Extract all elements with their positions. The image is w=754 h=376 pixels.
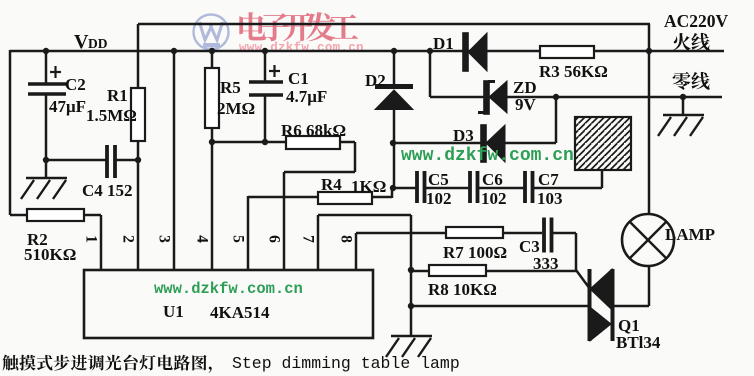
svg-text:2MΩ: 2MΩ — [217, 99, 255, 118]
junction — [391, 48, 397, 54]
wire — [575, 233, 578, 271]
wire — [284, 171, 355, 174]
resistor R3 — [540, 46, 594, 58]
resistor R7 — [446, 227, 503, 238]
capacitor C4 — [107, 145, 115, 178]
svg-text:D3: D3 — [453, 126, 474, 145]
svg-text:C2: C2 — [65, 75, 86, 94]
svg-text:R8 10KΩ: R8 10KΩ — [428, 280, 497, 299]
svg-text:7: 7 — [300, 235, 317, 243]
wire — [486, 270, 577, 273]
svg-text:4KA514: 4KA514 — [210, 303, 270, 322]
wire — [354, 142, 357, 172]
wire — [283, 172, 286, 271]
svg-text:Step dimming table lamp: Step dimming table lamp — [232, 354, 460, 373]
resistor R5 — [205, 68, 219, 128]
svg-text:9V: 9V — [515, 95, 537, 114]
wire — [393, 187, 417, 190]
wire — [211, 51, 214, 68]
wire — [504, 142, 556, 145]
svg-text:4.7μF: 4.7μF — [286, 87, 327, 106]
svg-text:8: 8 — [338, 235, 355, 243]
wire — [391, 188, 394, 198]
wire — [478, 187, 525, 190]
svg-text:C4 152: C4 152 — [82, 181, 133, 200]
wire — [211, 128, 214, 271]
wire — [355, 233, 358, 271]
svg-text:D1: D1 — [433, 34, 454, 53]
wire huo xian drop — [648, 24, 651, 214]
junction — [43, 48, 49, 54]
resistor R1 — [131, 88, 145, 141]
junction — [209, 48, 215, 54]
svg-text:2: 2 — [120, 235, 137, 243]
svg-text:47μF: 47μF — [49, 97, 86, 116]
junction — [408, 303, 414, 309]
svg-text:333: 333 — [533, 254, 559, 273]
diode D1 — [463, 33, 487, 71]
svg-text:DD: DD — [88, 36, 108, 51]
wire — [138, 23, 650, 26]
pin 6 — [266, 235, 283, 243]
wire VDD rail — [10, 50, 724, 53]
pin 7 — [300, 235, 317, 243]
wire — [429, 51, 432, 97]
ground — [386, 336, 432, 357]
wire — [264, 51, 267, 82]
svg-text:103: 103 — [537, 189, 563, 208]
capacitor C3 — [544, 218, 552, 253]
wire — [555, 97, 558, 143]
svg-text:www.dzkfw.com.cn: www.dzkfw.com.cn — [154, 280, 303, 298]
ground — [658, 115, 704, 136]
junction — [262, 139, 268, 145]
junction — [390, 185, 396, 191]
pin 4 — [194, 235, 211, 243]
wire — [553, 232, 576, 235]
svg-text:AC220V: AC220V — [664, 11, 729, 31]
junction — [209, 139, 215, 145]
wire — [45, 94, 48, 178]
svg-text:R1: R1 — [107, 86, 128, 105]
wire — [173, 51, 176, 271]
pin 8 — [338, 235, 355, 243]
resistor R2 — [27, 209, 84, 221]
svg-text:www.dzkfw.com.cn: www.dzkfw.com.cn — [239, 41, 364, 55]
svg-text:R5: R5 — [220, 78, 241, 97]
resistor R8 — [429, 265, 486, 276]
capacitor C7 — [525, 171, 533, 203]
decor — [194, 15, 229, 50]
svg-text:www.dzkfw.com.cn: www.dzkfw.com.cn — [401, 146, 574, 166]
wire gate — [576, 270, 590, 289]
wire — [393, 51, 396, 84]
junction — [171, 48, 177, 54]
caption — [2, 355, 18, 371]
svg-text:102: 102 — [481, 189, 507, 208]
junction — [408, 267, 414, 273]
svg-text:R7 100Ω: R7 100Ω — [443, 243, 507, 262]
diode D3 — [481, 125, 505, 162]
pin 1 — [83, 235, 100, 243]
wire — [648, 266, 651, 306]
decor — [239, 12, 358, 41]
svg-text:R6 68kΩ: R6 68kΩ — [281, 121, 346, 140]
junction — [390, 140, 396, 146]
wire — [46, 159, 106, 162]
wire — [212, 141, 286, 144]
pin 2 — [120, 235, 137, 243]
svg-text:LAMP: LAMP — [665, 225, 715, 244]
svg-text:510KΩ: 510KΩ — [24, 245, 76, 264]
wire ling xian rail — [506, 96, 722, 99]
svg-text:6: 6 — [266, 235, 283, 243]
wire — [137, 141, 140, 271]
svg-text:3: 3 — [156, 235, 173, 243]
resistor R4 — [318, 192, 372, 204]
wire — [533, 187, 602, 190]
zener ZD — [478, 81, 507, 114]
wire — [247, 196, 250, 271]
diode D2 — [375, 87, 413, 110]
wire — [372, 196, 392, 199]
wire — [45, 51, 48, 84]
wire — [394, 142, 482, 145]
svg-text:1KΩ: 1KΩ — [351, 177, 386, 196]
svg-text:1: 1 — [83, 235, 100, 243]
junction — [135, 157, 141, 163]
wire — [503, 232, 542, 235]
wire — [393, 108, 396, 188]
wire — [410, 215, 413, 336]
wire — [264, 95, 267, 142]
svg-text:C1: C1 — [288, 69, 309, 88]
wire — [601, 170, 604, 188]
wire — [318, 214, 411, 217]
wire — [137, 24, 140, 88]
wire — [682, 97, 685, 115]
svg-text:C6: C6 — [482, 170, 503, 189]
net huoxian label — [673, 33, 691, 51]
wire — [317, 215, 320, 271]
resistor R6 — [286, 136, 340, 149]
svg-text:1.5MΩ: 1.5MΩ — [86, 106, 137, 125]
IC U1 — [84, 270, 373, 338]
svg-text:V: V — [74, 31, 89, 53]
svg-text:U1: U1 — [163, 302, 184, 321]
capacitor C2 — [28, 66, 66, 94]
touch plate — [575, 117, 631, 170]
capacitor C5 — [417, 171, 425, 203]
wire — [84, 214, 101, 217]
wire bottom rail — [411, 305, 588, 308]
svg-text:R3 56KΩ: R3 56KΩ — [539, 62, 608, 81]
pin 3 — [156, 235, 173, 243]
junction — [262, 48, 268, 54]
wire — [424, 187, 470, 190]
wire — [340, 141, 355, 144]
svg-text:R4: R4 — [321, 175, 342, 194]
svg-text:4: 4 — [194, 235, 211, 243]
junction — [427, 48, 433, 54]
wire — [10, 214, 27, 217]
wire — [411, 270, 429, 273]
capacitor C1 — [249, 65, 283, 95]
wire — [100, 215, 103, 271]
junction — [43, 157, 49, 163]
ground — [21, 178, 67, 199]
wire — [248, 196, 318, 199]
svg-text:C7: C7 — [538, 170, 559, 189]
svg-text:5: 5 — [230, 235, 247, 243]
net lingxian label — [673, 72, 691, 90]
svg-text:D2: D2 — [365, 71, 386, 90]
capacitor C6 — [470, 171, 478, 203]
wire — [356, 232, 446, 235]
lamp — [622, 214, 674, 266]
wire — [430, 96, 488, 99]
junction — [680, 94, 686, 100]
junction — [646, 48, 652, 54]
junction — [553, 94, 559, 100]
svg-text:102: 102 — [426, 189, 452, 208]
wire — [9, 50, 12, 215]
svg-text:BTl34: BTl34 — [616, 333, 661, 352]
wire — [116, 159, 138, 162]
svg-text:C5: C5 — [428, 170, 449, 189]
pin 5 — [230, 235, 247, 243]
triac Q1 — [590, 269, 613, 341]
wire — [614, 305, 649, 308]
